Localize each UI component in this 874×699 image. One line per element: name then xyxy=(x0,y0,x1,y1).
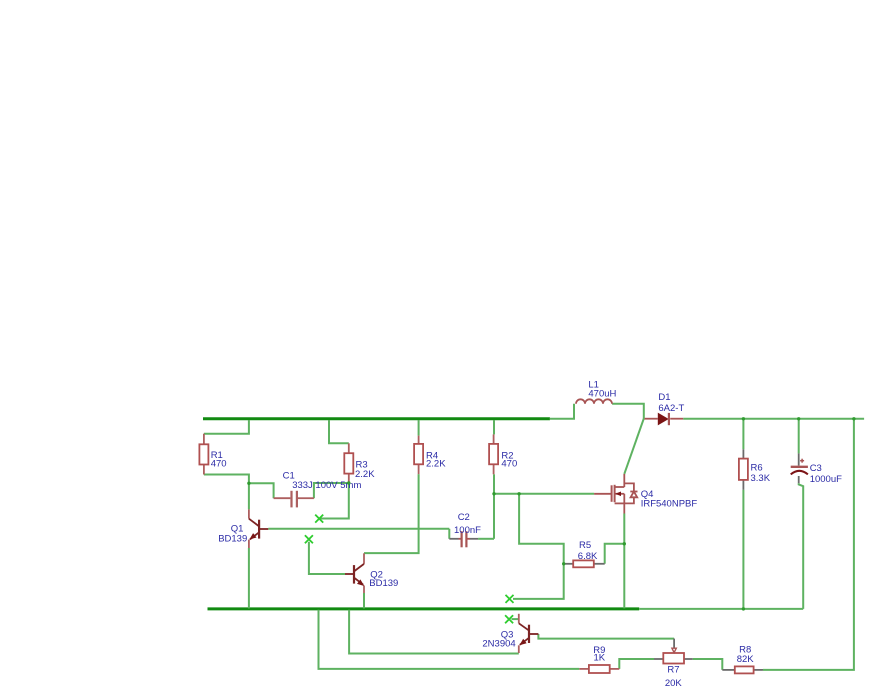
svg-text:2N3904: 2N3904 xyxy=(482,638,515,649)
svg-text:D1: D1 xyxy=(658,392,670,403)
wire: R5 right jog up to Q4 source xyxy=(605,544,625,564)
transistor Q1 xyxy=(249,509,268,548)
wire: R2 node to Q4 gate xyxy=(494,493,594,495)
no-connect X2 (Q2 base stub) xyxy=(305,535,313,543)
svg-text:1000uF: 1000uF xyxy=(810,474,842,485)
wire: R3 bottom stub to no-connect X1 xyxy=(321,482,349,519)
wire: drop to C2 left xyxy=(448,529,450,539)
transistor Q3 xyxy=(519,614,539,653)
wire: Q4 source down to ground rail xyxy=(623,514,625,609)
wire: R9 to R7 left xyxy=(619,659,654,669)
wire: ground rail drop 2 to Q3 emitter xyxy=(349,610,519,654)
resistor R2 xyxy=(489,434,498,474)
wire: R7 right to R8 left xyxy=(693,659,723,670)
svg-text:82K: 82K xyxy=(737,654,755,665)
svg-text:2.2K: 2.2K xyxy=(426,458,446,469)
diode D1 xyxy=(645,413,684,426)
wire: rail to C3 top xyxy=(798,420,800,453)
capacitor C1 xyxy=(274,491,314,508)
wire: L1 to D1 node xyxy=(612,404,644,419)
inductor L1 xyxy=(576,399,612,404)
svg-text:2.2K: 2.2K xyxy=(355,469,375,480)
wire: R1 bottom to Q1 collector xyxy=(204,475,249,510)
resistor R6 xyxy=(739,449,748,490)
wire: X4 stub to Q3 collector xyxy=(512,618,519,620)
wire: R8 right up to output rail xyxy=(763,420,854,670)
potentiometer R7 xyxy=(654,639,693,664)
svg-text:3.3K: 3.3K xyxy=(751,473,771,484)
junction at gate net branch xyxy=(517,492,520,495)
svg-text:R5: R5 xyxy=(579,540,591,551)
wire: rail to L1 xyxy=(550,404,574,419)
resistor R5 xyxy=(564,560,605,567)
wire: rail drop to R3 top xyxy=(329,420,349,443)
wire: rail to R2 top xyxy=(493,420,495,434)
junction at output rail / feedback branch xyxy=(852,417,855,420)
no-connect X4 (Q3 collector stub) xyxy=(505,615,513,623)
junction at R5 right / source xyxy=(623,542,626,545)
no-connect X1 (R3 stub) xyxy=(315,515,323,523)
wire: bottom ground rail (thick bus) xyxy=(208,607,640,610)
resistor R4 xyxy=(414,436,423,475)
svg-text:20K: 20K xyxy=(665,678,683,689)
junction at output rail / R6 xyxy=(742,417,745,420)
capacitor C3 (polarized) xyxy=(791,453,808,483)
wire: C2 right to R2 bottom net xyxy=(478,538,494,540)
junction at R5 left xyxy=(562,562,565,565)
wire: Q3 base jog to R7 wiper xyxy=(538,634,674,639)
svg-text:IRF540NPBF: IRF540NPBF xyxy=(641,498,698,509)
svg-text:R7: R7 xyxy=(667,664,679,675)
wire: ground rail drop 1 to R9 run xyxy=(319,610,580,669)
transistor Q2 xyxy=(345,553,364,593)
junction at R3/C1 net xyxy=(347,481,350,484)
svg-text:470: 470 xyxy=(501,459,517,470)
resistor R3 xyxy=(344,443,353,481)
wire: gate net branch down to R5 left / X3 xyxy=(513,494,564,599)
svg-text:C2: C2 xyxy=(458,512,470,523)
wire: C1 right up to R3 net xyxy=(314,483,349,498)
wire: bottom thin extension to R6/C3 xyxy=(639,608,803,610)
junction at output rail / C3 xyxy=(797,417,800,420)
junction at R6 bottom / ground xyxy=(742,607,745,610)
svg-text:C3: C3 xyxy=(810,463,822,474)
wire: X2 down to Q2 base xyxy=(309,542,345,574)
wire: rail to R6 top xyxy=(742,420,744,449)
wire: Q2 emitter to ground rail xyxy=(363,593,365,608)
svg-text:470: 470 xyxy=(211,459,227,470)
svg-text:6.8K: 6.8K xyxy=(578,551,598,562)
wire: R2 bottom vertical to C2 xyxy=(493,474,495,539)
wire: rail drop to R1 top xyxy=(204,420,249,434)
wire: rail to R4 top xyxy=(418,420,420,436)
svg-text:333J 100V 5mm: 333J 100V 5mm xyxy=(292,480,361,491)
wire: top input rail (thick bus) xyxy=(203,417,550,420)
wire: R4 bottom to Q2 collector xyxy=(364,474,419,553)
svg-text:6A2-T: 6A2-T xyxy=(658,403,684,414)
resistor R9 xyxy=(579,665,619,673)
capacitor C2 xyxy=(449,531,478,547)
resistor R1 xyxy=(199,434,208,475)
resistor R8 xyxy=(722,666,763,673)
wire: R6 bottom to thin ground xyxy=(742,490,744,609)
wire: C3 bottom jog to thin ground xyxy=(799,483,804,609)
mosfet Q4 xyxy=(594,474,637,514)
svg-text:R6: R6 xyxy=(751,462,763,473)
wire: Q1 emitter to ground rail xyxy=(248,548,250,608)
wire: output rail after D1 xyxy=(683,418,864,420)
wire: node to C1 left xyxy=(249,483,274,498)
svg-text:100nF: 100nF xyxy=(454,525,481,536)
no-connect X3 (R5 net stub) xyxy=(506,595,514,603)
wire: Q1 base long run to C2 xyxy=(268,528,449,530)
svg-text:470uH: 470uH xyxy=(588,388,616,399)
svg-text:BD139: BD139 xyxy=(218,533,247,544)
junction at C1 branch node xyxy=(247,482,250,485)
svg-text:BD139: BD139 xyxy=(369,578,398,589)
svg-text:1K: 1K xyxy=(593,653,605,664)
wire: D1 anode node to Q4 drain (diagonal) xyxy=(624,419,644,474)
junction at R2 bottom / gate net xyxy=(492,492,495,495)
